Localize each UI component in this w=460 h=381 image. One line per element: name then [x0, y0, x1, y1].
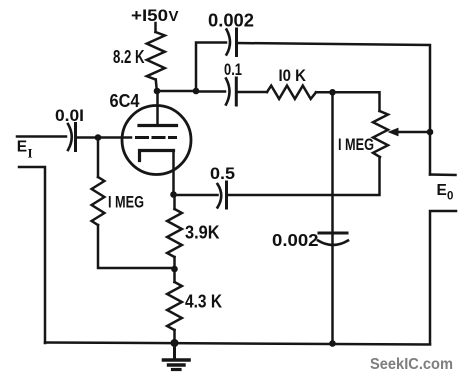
- node grid junction: [95, 134, 102, 141]
- svg-text:I MEG: I MEG: [108, 193, 144, 212]
- wire supply lead: [154, 23, 157, 32]
- wire grid leak bottom to divider: [98, 225, 175, 268]
- capacitor C4 0.5: [218, 184, 222, 208]
- capacitor C3 0.1: [226, 79, 230, 105]
- svg-text:3.9K: 3.9K: [185, 223, 220, 243]
- wire E0 bottom stub down to rail: [430, 211, 456, 344]
- wire E0 top stub: [430, 173, 456, 176]
- wire feedback cap to right side: [237, 43, 431, 175]
- resistor R1 8.2K: [147, 32, 165, 80]
- node plate junction: [154, 88, 161, 95]
- wire cathode node down: [173, 195, 176, 210]
- node riser junction: [193, 88, 200, 95]
- wire 0.002 column: [331, 92, 334, 245]
- resistor R3 10K: [267, 86, 316, 99]
- node divider junction: [171, 266, 178, 273]
- svg-text:I0 K: I0 K: [279, 66, 307, 85]
- wire 8.2K bottom lead: [156, 80, 157, 92]
- wire cathode node to 0.5 cap: [174, 194, 218, 197]
- wire riser up to feedback cap: [196, 43, 226, 92]
- svg-text:0.002: 0.002: [272, 230, 319, 250]
- resistor R2 1 MEG (grid leak): [92, 177, 105, 225]
- svg-text:SeekIC.com: SeekIC.com: [370, 356, 453, 373]
- svg-text:I: I: [28, 146, 33, 161]
- ground: [173, 343, 176, 359]
- node cathode junction: [170, 191, 177, 198]
- node wiper tap on right bus: [427, 129, 434, 136]
- capacitor C2 0.01 (input): [68, 124, 72, 150]
- svg-text:0.5: 0.5: [210, 164, 235, 183]
- svg-text:8.2 K: 8.2 K: [113, 47, 145, 67]
- potentiometer R4 1 MEG: [373, 111, 388, 157]
- svg-text:I MEG: I MEG: [338, 135, 374, 154]
- svg-text:0.0I: 0.0I: [55, 106, 84, 125]
- wire 0.1 cap to 10K: [237, 91, 267, 94]
- wire input lead: [17, 135, 66, 138]
- svg-text:0: 0: [447, 191, 453, 203]
- node 10K output junction: [329, 89, 336, 96]
- V1 grid (dashed): [98, 136, 131, 139]
- resistor R5 3.9K: [167, 209, 182, 257]
- svg-text:+I50: +I50: [131, 6, 168, 25]
- node rail at 0.002: [329, 340, 336, 347]
- wire 4.3K to bottom rail: [173, 330, 176, 343]
- port EI lower bracket: [19, 167, 45, 343]
- wire bottom rail: [45, 343, 430, 345]
- wire grid node down: [97, 138, 100, 178]
- svg-text:4.3 K: 4.3 K: [185, 292, 222, 312]
- svg-text:6C4: 6C4: [110, 91, 140, 111]
- svg-text:E: E: [437, 182, 447, 199]
- svg-text:0.1: 0.1: [224, 60, 242, 79]
- triode V1 6C4 envelope: [122, 106, 191, 175]
- wire plate node to coupling cap: [196, 90, 225, 93]
- V1 cathode: [140, 151, 174, 161]
- wire pot bottom to 0.5 line: [228, 157, 380, 195]
- svg-text:E: E: [17, 139, 27, 156]
- wire 10K to node: [316, 91, 333, 94]
- node rail at divider: [171, 339, 179, 347]
- wire input cap to grid node: [76, 136, 98, 139]
- wire node to pot top: [333, 92, 380, 111]
- svg-text:V: V: [169, 8, 179, 25]
- wire plate node to riser node: [157, 90, 196, 93]
- wiper arrow into potentiometer: [395, 131, 430, 134]
- capacitor C5 0.002 (bottom): [319, 232, 347, 235]
- svg-text:0.002: 0.002: [208, 10, 254, 31]
- wire divider node to 4.3K: [173, 269, 176, 282]
- resistor R6 4.3K: [167, 282, 182, 330]
- wire 3.9K to divider node: [173, 257, 176, 269]
- capacitor C1 0.002 (top feedback): [227, 30, 231, 55]
- V1 plate: [156, 91, 159, 126]
